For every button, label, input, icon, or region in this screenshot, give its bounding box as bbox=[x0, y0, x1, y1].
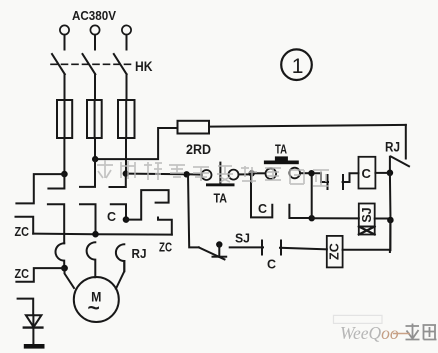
node motor wire1 bbox=[61, 265, 68, 272]
node braking bus line2 bbox=[92, 231, 99, 238]
contact SJ arrow bbox=[216, 241, 222, 247]
node after start button bbox=[308, 170, 314, 176]
coil SJ box bbox=[359, 204, 375, 227]
watermark band bbox=[97, 160, 329, 186]
node self-hold bottom bbox=[309, 215, 315, 221]
wire L3 drop bbox=[126, 35, 128, 50]
svg-text:1: 1 bbox=[292, 55, 304, 78]
wire C contact to ZC coil bbox=[280, 248, 327, 250]
thermal element RJ line2 bbox=[87, 242, 96, 277]
wire top rail bbox=[209, 125, 406, 127]
terminal L2 bbox=[90, 25, 99, 34]
svg-text:SJ: SJ bbox=[235, 232, 250, 246]
contactor ZC main contact left-upper upper finger bbox=[16, 174, 64, 203]
node line3 control feed bbox=[123, 170, 129, 176]
wire L2 drop bbox=[94, 35, 96, 50]
watermark WeeQoo bbox=[334, 315, 437, 343]
wire stop button to node bbox=[239, 173, 249, 175]
node line1 feed bbox=[61, 171, 68, 178]
svg-text:C: C bbox=[258, 202, 267, 216]
svg-text:WeeQoo: WeeQoo bbox=[340, 323, 399, 343]
svg-text:ZC: ZC bbox=[328, 243, 342, 260]
terminal L3 bbox=[122, 25, 131, 34]
svg-text:AC380V: AC380V bbox=[72, 8, 116, 23]
wire line3 fuse to node bbox=[125, 138, 127, 174]
wire pole1 to fuse bbox=[64, 74, 66, 100]
svg-text:2RD: 2RD bbox=[186, 142, 211, 157]
pushbutton TA stop terminal a bbox=[202, 170, 212, 180]
terminal L1 bbox=[60, 25, 69, 34]
figure number circle 1 bbox=[281, 49, 312, 80]
contactor ZC left-upper lower finger bbox=[16, 217, 34, 234]
svg-text:RJ: RJ bbox=[132, 246, 147, 261]
svg-text:ZC: ZC bbox=[15, 267, 30, 281]
wire node to start button bbox=[255, 172, 266, 174]
wire self-hold bottom to SJ coil bbox=[312, 217, 359, 219]
contact SJ time-delay blade bbox=[199, 247, 225, 259]
wire motor lead1 diagonal bbox=[65, 268, 75, 288]
fuse 1RD-3 bbox=[118, 100, 135, 138]
fuse 1RD-1 bbox=[57, 100, 72, 138]
node bus top bbox=[387, 170, 394, 177]
svg-text:RJ: RJ bbox=[385, 140, 400, 155]
contact SJ delayed (series to C coil) bbox=[315, 173, 328, 182]
wire staircase to ZC right contact bbox=[126, 190, 169, 220]
pushbutton TA stop terminal b bbox=[229, 170, 239, 180]
wire pole3 to fuse bbox=[126, 74, 128, 100]
contactor ZC right lower finger bbox=[158, 218, 172, 235]
contact C (bottom row) tick a bbox=[261, 241, 263, 255]
svg-text:ZC: ZC bbox=[15, 225, 30, 239]
wire control feed to stop button bbox=[126, 174, 202, 175]
motor M bbox=[74, 277, 119, 322]
wire C coil to bus bbox=[375, 172, 387, 174]
auxiliary contact C self-hold right leg bbox=[289, 205, 311, 218]
coil ZC box bbox=[327, 236, 343, 268]
pushbutton TA start terminal b bbox=[289, 168, 300, 179]
pushbutton TA start cap bar bbox=[264, 161, 299, 165]
node after stop button bbox=[249, 170, 255, 176]
switch HK pole 1 blade bbox=[52, 54, 65, 74]
svg-text:TA: TA bbox=[275, 142, 287, 157]
contactor ZC lower-left upper finger bbox=[16, 268, 64, 282]
svg-text:TA: TA bbox=[214, 191, 228, 206]
diode rectifier bbox=[26, 315, 42, 327]
wire RJ pivot to bus node bbox=[389, 157, 391, 173]
pushbutton TA start terminal a bbox=[266, 168, 277, 179]
contactor C pole1 upper finger bbox=[48, 174, 64, 188]
svg-text:C: C bbox=[267, 258, 276, 272]
auxiliary contact C self-hold left leg bbox=[251, 173, 272, 217]
contactor C pole1 lower finger bbox=[48, 204, 64, 243]
wire SJ coil to bus bbox=[375, 218, 387, 220]
svg-text:HK: HK bbox=[135, 59, 153, 74]
svg-text:C: C bbox=[362, 166, 372, 181]
switch HK pole 2 blade bbox=[83, 54, 96, 74]
pushbutton TA start cap block bbox=[275, 156, 288, 160]
wire start button to node bbox=[300, 172, 309, 174]
switch HK linkage dashed bbox=[51, 63, 134, 65]
contactor C pole2 upper finger bbox=[80, 159, 95, 187]
wire ZC coil to bus corner bbox=[343, 250, 390, 252]
ground bar bbox=[24, 344, 45, 349]
wire self-hold riser bbox=[311, 173, 313, 218]
contactor C pole3 lower finger bbox=[111, 204, 126, 219]
node line2 feed bbox=[92, 156, 98, 162]
contactor C pole2 lower finger bbox=[80, 204, 96, 234]
fuse 2RD bbox=[178, 121, 210, 134]
node pole3 bottom bbox=[123, 216, 130, 223]
wire line2 node to 2RD riser bbox=[95, 128, 177, 159]
relay RJ NC contact blade bbox=[391, 157, 409, 167]
wire line2 fuse to node bbox=[94, 138, 96, 159]
wire braking bus bbox=[33, 234, 172, 235]
thermal element RJ line3 bbox=[116, 244, 124, 271]
node control drop bbox=[183, 171, 189, 177]
contact C (bottom row) tick b bbox=[280, 241, 282, 255]
pushbutton TA stop bridge bar bbox=[206, 183, 235, 186]
fuse 1RD-2 bbox=[87, 100, 102, 138]
wire right rail corner down bbox=[405, 125, 407, 159]
wire line1 fuse to node bbox=[63, 138, 65, 174]
switch HK pole 3 blade bbox=[114, 54, 127, 74]
contactor ZC lower-left lower finger bbox=[18, 299, 34, 315]
svg-text:~: ~ bbox=[88, 297, 100, 320]
wire right bus bbox=[389, 173, 392, 250]
svg-text:SJ: SJ bbox=[360, 207, 374, 222]
coil SJ delay element box bbox=[359, 227, 375, 235]
wire SJ contact to C contact bbox=[230, 246, 263, 248]
wire motor lead3 diagonal bbox=[116, 261, 124, 289]
svg-text:ZC: ZC bbox=[159, 241, 172, 255]
wire L1 drop bbox=[64, 35, 66, 50]
svg-text:C: C bbox=[107, 210, 116, 224]
wire control drop to SJ contact bbox=[188, 174, 199, 247]
coil C box bbox=[359, 157, 376, 189]
wire pole2 to fuse bbox=[94, 74, 96, 100]
thermal element RJ line1 bbox=[55, 243, 64, 268]
contactor C pole3 upper finger bbox=[110, 174, 126, 187]
node bus mid bbox=[387, 217, 394, 224]
pushbutton TA stop stem bbox=[219, 163, 221, 184]
